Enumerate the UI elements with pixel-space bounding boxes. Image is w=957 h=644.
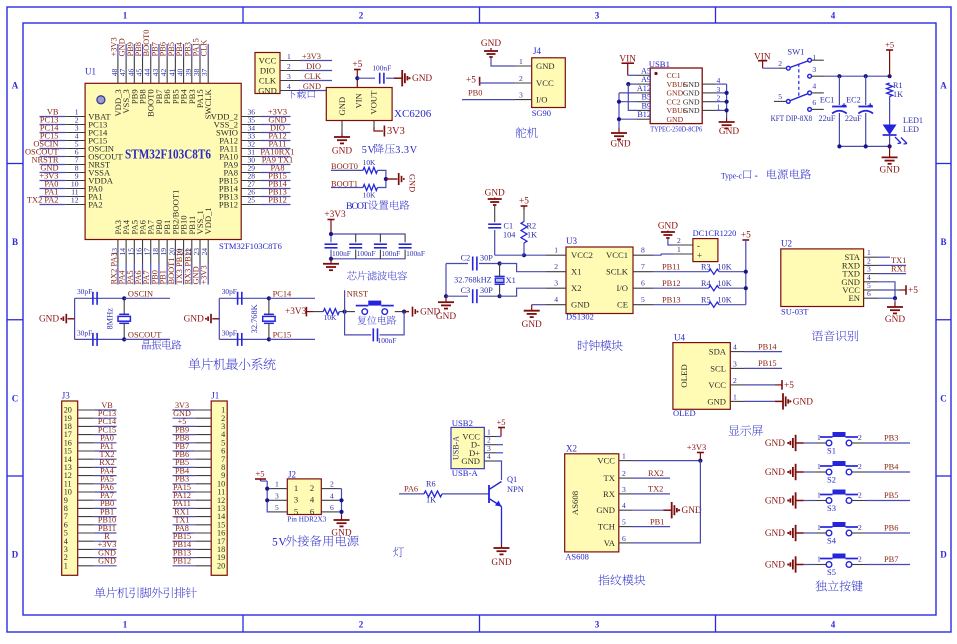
svg-text:S5: S5 — [827, 567, 836, 577]
svg-text:5: 5 — [272, 537, 278, 549]
svg-text:J2: J2 — [288, 470, 296, 480]
svg-text:5: 5 — [362, 145, 367, 156]
svg-text:8MHz: 8MHz — [106, 308, 115, 330]
svg-text:B5: B5 — [641, 93, 651, 102]
svg-text:J3: J3 — [62, 391, 71, 401]
svg-text:1: 1 — [519, 57, 523, 66]
svg-text:RX: RX — [603, 489, 616, 499]
svg-text:RX1: RX1 — [891, 264, 907, 273]
svg-text:TX2 PA2: TX2 PA2 — [27, 196, 59, 205]
svg-text:2: 2 — [554, 262, 558, 271]
svg-text:100nF: 100nF — [372, 64, 391, 73]
svg-text:U2: U2 — [781, 239, 792, 249]
svg-text:PB12: PB12 — [268, 196, 287, 205]
svg-text:3: 3 — [733, 359, 737, 368]
svg-text:SW1: SW1 — [787, 46, 804, 56]
svg-text:C1: C1 — [504, 221, 514, 230]
svg-text:3: 3 — [622, 485, 626, 494]
svg-text:I/O: I/O — [536, 95, 547, 105]
svg-text:SU-03T: SU-03T — [781, 307, 809, 317]
svg-text:10K: 10K — [363, 158, 376, 167]
svg-text:EC2: EC2 — [846, 96, 861, 105]
svg-text:EN: EN — [849, 293, 861, 303]
svg-text:4: 4 — [733, 343, 737, 352]
svg-text:RX2: RX2 — [648, 469, 664, 478]
svg-text:R5: R5 — [701, 295, 711, 304]
svg-text:5: 5 — [778, 92, 782, 101]
svg-text:4: 4 — [487, 452, 491, 461]
svg-text:DS1302: DS1302 — [566, 312, 594, 322]
svg-text:2: 2 — [359, 11, 364, 21]
svg-text:VOUT: VOUT — [368, 90, 378, 115]
svg-text:X1: X1 — [506, 276, 516, 285]
svg-text:32.768K: 32.768K — [250, 304, 259, 333]
svg-text:C: C — [940, 394, 947, 404]
svg-text:GND: GND — [522, 320, 542, 330]
svg-text:R1: R1 — [893, 81, 903, 90]
svg-text:1: 1 — [677, 245, 681, 254]
svg-text:+5: +5 — [496, 417, 505, 427]
svg-text:V: V — [410, 145, 418, 156]
svg-text:S2: S2 — [827, 475, 836, 485]
svg-text:GND: GND — [611, 140, 631, 150]
svg-text:4: 4 — [554, 295, 558, 304]
svg-text:USB-A: USB-A — [452, 436, 461, 460]
svg-text:AS608: AS608 — [570, 490, 580, 515]
svg-text:+5: +5 — [741, 231, 751, 241]
svg-text:3: 3 — [404, 145, 409, 156]
svg-text:5: 5 — [275, 503, 279, 512]
svg-text:2: 2 — [778, 59, 782, 68]
svg-text:GND: GND — [491, 558, 511, 568]
svg-text:4: 4 — [310, 495, 315, 505]
svg-text:3: 3 — [812, 65, 816, 74]
svg-text:GND: GND — [880, 166, 900, 176]
svg-text:2: 2 — [330, 480, 334, 489]
svg-text:4: 4 — [812, 82, 816, 91]
svg-text:PB6: PB6 — [884, 524, 898, 533]
svg-text:J4: J4 — [533, 46, 542, 56]
svg-text:4: 4 — [330, 491, 334, 500]
svg-text:-: - — [755, 171, 759, 182]
svg-text:2: 2 — [733, 376, 737, 385]
svg-text:+5: +5 — [885, 40, 894, 50]
svg-text:+5: +5 — [466, 76, 476, 86]
svg-text:2: 2 — [310, 483, 314, 493]
svg-text:VCC: VCC — [536, 78, 554, 88]
svg-text:PB3: PB3 — [884, 434, 898, 443]
svg-text:STM32F103C8T6: STM32F103C8T6 — [219, 241, 282, 251]
svg-text:GND: GND — [436, 312, 456, 322]
svg-text:I/O: I/O — [617, 283, 628, 293]
svg-text:OLED: OLED — [679, 364, 689, 387]
svg-text:DIO: DIO — [306, 62, 321, 71]
svg-text:U3: U3 — [566, 236, 577, 246]
svg-text:STM32F103C8T6: STM32F103C8T6 — [125, 147, 211, 162]
svg-text:VCC: VCC — [597, 456, 615, 466]
svg-text:+5: +5 — [908, 286, 918, 296]
svg-text:SWCLK: SWCLK — [203, 89, 213, 120]
svg-text:GND: GND — [683, 97, 700, 106]
svg-text:22uF: 22uF — [845, 114, 862, 123]
svg-text:GND: GND — [258, 86, 277, 96]
svg-text:7: 7 — [641, 262, 645, 271]
svg-text:VIN: VIN — [354, 92, 364, 108]
svg-text:GND: GND — [667, 115, 684, 124]
svg-text:VCC: VCC — [708, 380, 726, 390]
svg-text:S4: S4 — [827, 536, 837, 546]
svg-text:CLK: CLK — [259, 76, 277, 86]
svg-text:D: D — [12, 550, 19, 560]
svg-text:3V3: 3V3 — [387, 126, 405, 137]
svg-text:R3: R3 — [701, 262, 711, 271]
svg-text:+5: +5 — [519, 197, 529, 207]
svg-text:GND: GND — [765, 497, 785, 507]
svg-text:EC1: EC1 — [820, 96, 835, 105]
svg-text:1K: 1K — [426, 496, 436, 505]
svg-text:2: 2 — [519, 74, 523, 83]
svg-text:100nF: 100nF — [378, 336, 397, 345]
svg-text:PB7: PB7 — [884, 555, 898, 564]
svg-text:CC1: CC1 — [667, 71, 681, 80]
svg-text:B12: B12 — [637, 110, 651, 119]
svg-text:X1: X1 — [571, 267, 582, 277]
svg-text:TX: TX — [604, 473, 616, 483]
svg-text:TX2: TX2 — [648, 485, 663, 494]
svg-text:GND: GND — [719, 127, 739, 137]
svg-text:C3: C3 — [461, 286, 471, 295]
svg-text:CLK: CLK — [304, 72, 321, 81]
svg-text:2: 2 — [287, 62, 291, 71]
svg-text:PB12: PB12 — [662, 279, 681, 288]
svg-text:+3V3: +3V3 — [687, 442, 706, 452]
svg-text:25: 25 — [248, 196, 256, 205]
svg-text:3: 3 — [275, 491, 279, 500]
svg-text:B: B — [12, 237, 18, 247]
svg-text:GND: GND — [337, 97, 347, 116]
svg-text:TYPEC-250D-8CP6: TYPEC-250D-8CP6 — [650, 125, 702, 134]
svg-text:PB5: PB5 — [884, 491, 898, 500]
svg-text:J1: J1 — [211, 391, 219, 401]
svg-text:32.768kHZ: 32.768kHZ — [454, 275, 492, 284]
svg-text:2: 2 — [858, 491, 862, 500]
svg-text:AS608: AS608 — [565, 552, 589, 562]
svg-text:VCC: VCC — [259, 56, 277, 66]
svg-text:NRST: NRST — [347, 290, 368, 299]
svg-text:Type-c: Type-c — [721, 171, 742, 181]
svg-text:TCH: TCH — [598, 522, 615, 532]
svg-text:GND: GND — [485, 189, 505, 199]
svg-text:GND: GND — [707, 396, 726, 406]
svg-text:-: - — [697, 241, 700, 251]
svg-text:37: 37 — [200, 69, 209, 77]
svg-text:100nF: 100nF — [381, 249, 400, 258]
svg-text:GND: GND — [596, 505, 615, 515]
svg-text:6: 6 — [812, 98, 816, 107]
svg-text:VA: VA — [604, 538, 616, 548]
svg-text:1: 1 — [123, 11, 128, 21]
svg-text:+5: +5 — [784, 381, 794, 391]
svg-text:GND: GND — [765, 561, 785, 571]
svg-text:30pF: 30pF — [222, 287, 237, 296]
svg-text:6: 6 — [622, 534, 626, 543]
svg-text:4: 4 — [622, 501, 626, 510]
svg-text:A12: A12 — [637, 84, 651, 93]
svg-text:2: 2 — [677, 236, 681, 245]
svg-text:4: 4 — [831, 620, 836, 630]
svg-text:104: 104 — [503, 230, 515, 239]
svg-text:30P: 30P — [480, 286, 493, 295]
svg-text:GND: GND — [682, 506, 702, 516]
svg-text:1: 1 — [123, 620, 128, 630]
svg-text:A9: A9 — [641, 75, 651, 84]
svg-text:B: B — [940, 237, 946, 247]
svg-text:1: 1 — [64, 561, 68, 570]
svg-text:2: 2 — [858, 523, 862, 532]
svg-text:1K: 1K — [527, 230, 537, 239]
svg-text:PB12: PB12 — [219, 200, 238, 210]
svg-text:DIO: DIO — [260, 66, 275, 76]
svg-text:XC6206: XC6206 — [394, 108, 432, 120]
svg-text:VCC2: VCC2 — [571, 250, 593, 260]
svg-text:GND: GND — [331, 529, 351, 539]
svg-text:C2: C2 — [461, 254, 471, 263]
svg-text:1: 1 — [554, 246, 558, 255]
svg-text:22uF: 22uF — [819, 114, 836, 123]
svg-text:A5: A5 — [641, 66, 651, 75]
svg-text:PA2: PA2 — [88, 200, 103, 210]
svg-text:SCL: SCL — [710, 363, 726, 373]
svg-text:5: 5 — [641, 295, 645, 304]
svg-text:GND: GND — [571, 300, 590, 310]
svg-text:VCC1: VCC1 — [606, 250, 628, 260]
svg-text:PB0: PB0 — [468, 88, 482, 97]
svg-text:D: D — [940, 550, 947, 560]
svg-text:10K: 10K — [363, 191, 376, 200]
svg-text:30P: 30P — [480, 254, 493, 263]
svg-text:GND: GND — [765, 468, 785, 478]
svg-text:6: 6 — [641, 279, 645, 288]
svg-text:B9: B9 — [641, 101, 651, 110]
svg-text:OSCOUT: OSCOUT — [128, 331, 162, 340]
svg-text:GND: GND — [667, 89, 684, 98]
svg-text:GND: GND — [39, 315, 59, 325]
svg-text:SG90: SG90 — [532, 108, 551, 118]
svg-text:1: 1 — [622, 452, 626, 461]
svg-text:KFT DIP-8X8: KFT DIP-8X8 — [771, 114, 813, 123]
svg-text:PB15: PB15 — [758, 359, 777, 368]
svg-text:10K: 10K — [718, 279, 732, 288]
svg-text:+: + — [697, 251, 702, 261]
svg-text:10K: 10K — [718, 295, 732, 304]
svg-text:100nF: 100nF — [406, 249, 425, 258]
svg-text:S1: S1 — [827, 446, 836, 456]
svg-text:GND: GND — [658, 222, 678, 232]
svg-text:6: 6 — [867, 289, 871, 298]
svg-text:6: 6 — [330, 503, 334, 512]
svg-text:GND: GND — [536, 61, 555, 71]
svg-text:PB13: PB13 — [662, 295, 681, 304]
svg-text:U1: U1 — [85, 67, 96, 77]
svg-text:X2: X2 — [571, 283, 582, 293]
svg-text:GND: GND — [332, 147, 352, 157]
svg-text:2: 2 — [858, 462, 862, 471]
svg-text:PA6: PA6 — [404, 485, 418, 494]
svg-text:4: 4 — [287, 82, 291, 91]
svg-text:10K: 10K — [324, 313, 337, 322]
svg-text:R4: R4 — [701, 279, 711, 288]
svg-text:GND: GND — [793, 397, 813, 407]
svg-text:T: T — [362, 201, 368, 212]
svg-text:R2: R2 — [527, 221, 537, 230]
svg-text:3: 3 — [554, 279, 558, 288]
svg-text:USB2: USB2 — [452, 418, 473, 428]
svg-text:PB1: PB1 — [650, 517, 664, 526]
svg-text:SDA: SDA — [709, 347, 727, 357]
svg-text:1: 1 — [733, 392, 737, 401]
svg-text:GND: GND — [481, 39, 501, 49]
svg-text:1K: 1K — [893, 90, 903, 99]
svg-text:PB14: PB14 — [758, 342, 777, 351]
svg-text:PB4: PB4 — [884, 463, 899, 472]
svg-text:X2: X2 — [566, 443, 577, 453]
svg-text:20: 20 — [217, 561, 225, 570]
svg-text:GND: GND — [303, 82, 321, 91]
svg-text:30pF: 30pF — [222, 329, 237, 338]
svg-text:30pF: 30pF — [77, 329, 92, 338]
svg-text:LED: LED — [903, 125, 919, 134]
svg-text:2: 2 — [858, 433, 862, 442]
svg-text:OSCIN: OSCIN — [128, 290, 153, 299]
svg-text:Q1: Q1 — [507, 475, 517, 484]
svg-text:GND: GND — [683, 89, 700, 98]
svg-text:VDD_1: VDD_1 — [203, 207, 213, 234]
svg-text:GND: GND — [885, 315, 905, 325]
svg-text:GND: GND — [408, 174, 417, 192]
svg-text:A: A — [940, 81, 947, 91]
svg-text:V: V — [278, 537, 287, 549]
svg-text:6: 6 — [310, 506, 315, 516]
svg-text:A: A — [12, 81, 19, 91]
svg-text:100nF: 100nF — [357, 249, 376, 258]
svg-text:2: 2 — [858, 555, 862, 564]
svg-text:3: 3 — [294, 495, 298, 505]
svg-text:USB-A: USB-A — [452, 468, 479, 478]
svg-text:U4: U4 — [674, 332, 685, 342]
svg-text:3: 3 — [395, 145, 400, 156]
svg-text:PC15: PC15 — [273, 331, 292, 340]
svg-text:+5: +5 — [352, 60, 362, 70]
svg-text:NPN: NPN — [507, 485, 524, 494]
svg-text:OLED: OLED — [673, 408, 696, 418]
svg-text:1: 1 — [287, 52, 291, 61]
svg-text:DC1CR1220: DC1CR1220 — [693, 229, 737, 238]
svg-text:CE: CE — [617, 300, 628, 310]
svg-text:24: 24 — [200, 248, 209, 256]
svg-text:GND: GND — [683, 106, 700, 115]
svg-text:1: 1 — [294, 483, 298, 493]
svg-text:3: 3 — [287, 72, 291, 81]
svg-text:5: 5 — [622, 518, 626, 527]
svg-text:GND: GND — [184, 315, 204, 325]
svg-text:CC2: CC2 — [667, 97, 681, 106]
svg-text:+3V3: +3V3 — [285, 307, 307, 317]
svg-text:2: 2 — [359, 620, 364, 630]
svg-text:GND: GND — [412, 74, 432, 84]
svg-text:R6: R6 — [426, 480, 436, 489]
svg-text:PB12: PB12 — [173, 557, 191, 566]
svg-text:+3V3: +3V3 — [302, 52, 321, 61]
svg-text:10K: 10K — [718, 262, 732, 271]
svg-text:PC14: PC14 — [273, 290, 292, 299]
svg-text:8: 8 — [641, 246, 645, 255]
svg-text:12: 12 — [71, 196, 79, 205]
svg-text:3: 3 — [595, 11, 600, 21]
svg-text:CLK: CLK — [200, 40, 209, 57]
svg-text:30pF: 30pF — [77, 287, 92, 296]
svg-text:GND: GND — [765, 529, 785, 539]
svg-text:GND: GND — [765, 439, 785, 449]
svg-text:GND: GND — [683, 80, 700, 89]
svg-text:3: 3 — [519, 91, 523, 100]
svg-text:+5: +5 — [255, 469, 264, 479]
svg-text:+3V3: +3V3 — [324, 210, 346, 220]
svg-text:2: 2 — [622, 469, 626, 478]
svg-text:5: 5 — [294, 506, 298, 516]
svg-text:+3V3: +3V3 — [200, 265, 209, 284]
svg-text:S3: S3 — [827, 503, 836, 513]
svg-text:LED1: LED1 — [903, 116, 923, 125]
svg-text:100nF: 100nF — [332, 249, 351, 258]
svg-text:4: 4 — [831, 11, 836, 21]
svg-text:C: C — [12, 394, 19, 404]
svg-text:1: 1 — [275, 480, 279, 489]
svg-text:SCLK: SCLK — [606, 267, 629, 277]
svg-text:PB11: PB11 — [662, 262, 680, 271]
svg-text:GND: GND — [98, 557, 116, 566]
svg-text:3: 3 — [595, 620, 600, 630]
svg-text:GND: GND — [461, 456, 480, 466]
